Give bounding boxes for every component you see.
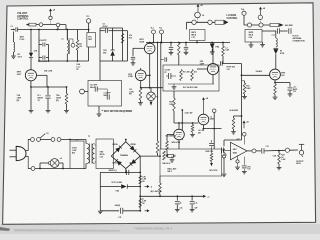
svg-text:6U1: 6U1 <box>281 75 284 77</box>
svg-text:LH SENS: LH SENS <box>227 15 237 17</box>
pot tap contact <box>223 155 226 158</box>
switch contact (osc) 2 <box>208 20 212 24</box>
svg-text:C13: C13 <box>266 146 269 148</box>
wire filter left leg <box>99 172 101 210</box>
svg-text:150: 150 <box>79 46 82 48</box>
tube V6 detector <box>270 69 281 80</box>
capacitor rail bypass <box>161 59 164 61</box>
resistor R5 <box>66 87 68 94</box>
ground (pot) <box>222 173 227 175</box>
+B arrow (rail 2) <box>145 210 148 212</box>
ground (V3 cathode) <box>138 102 143 104</box>
ground arrow (NDR) <box>211 162 213 164</box>
capacitor C17 <box>276 28 278 33</box>
wire AVC branch <box>234 115 242 117</box>
jack contact 2 <box>285 148 289 152</box>
oscillator coil L2 <box>66 30 68 41</box>
diode D4 <box>273 47 278 49</box>
wire osc switch row <box>187 21 216 23</box>
capacitor V2 grid bypass <box>133 47 144 49</box>
wire detector cathode <box>274 80 276 84</box>
ground (R5) <box>64 110 69 112</box>
svg-text:TRA8DA: TRA8DA <box>120 154 128 157</box>
ground (pad 2) <box>260 44 265 46</box>
svg-text:C5B 1.3/1B: C5B 1.3/1B <box>44 71 53 73</box>
wire column top <box>100 27 123 29</box>
svg-text:L3: L3 <box>62 39 64 41</box>
svg-text:1-8: 1-8 <box>202 15 205 17</box>
capacitor C18 <box>288 28 290 33</box>
wire AC neutral run <box>35 168 86 170</box>
svg-text:TL1: TL1 <box>86 16 89 18</box>
IF can box (antenna) <box>245 30 262 43</box>
wire node C4 <box>38 30 40 62</box>
+B arrow tap <box>140 177 143 179</box>
svg-text:R16: R16 <box>129 37 132 39</box>
svg-text:M/DC: M/DC <box>104 95 109 97</box>
ground (C16) <box>288 93 293 95</box>
wire main grid bus <box>18 29 89 31</box>
antenna input terminal <box>11 29 14 31</box>
test point above rail <box>212 109 216 113</box>
resistor R17b <box>156 141 159 153</box>
line resistor module box <box>70 141 84 169</box>
svg-text:NDR 21M: NDR 21M <box>206 151 214 153</box>
resistor R20 <box>232 118 235 129</box>
svg-text:(R): (R) <box>17 100 20 102</box>
wire plate column right <box>122 28 124 61</box>
svg-text:CR4: CR4 <box>116 190 119 193</box>
wire pot wiper <box>225 149 231 151</box>
diode D3 <box>210 42 214 44</box>
ground (C23) <box>175 209 180 211</box>
filter capacitor C23 <box>176 196 178 200</box>
wire switch drop <box>57 27 59 30</box>
switch contact <box>259 23 263 27</box>
capacitor C20 <box>243 157 245 165</box>
svg-text:TL3: TL3 <box>159 27 162 29</box>
ground (C9) <box>169 52 174 54</box>
svg-text:1/4W: 1/4W <box>246 87 250 90</box>
wire detector input <box>242 74 270 76</box>
ground (can) <box>249 44 254 46</box>
wire cathode row <box>31 86 67 88</box>
wire B+ bus <box>140 195 203 197</box>
svg-text:41: 41 <box>180 201 182 204</box>
wire column bottom <box>100 60 123 62</box>
diode CR3B <box>130 146 135 151</box>
wire antenna switch row <box>244 24 270 26</box>
volume pot <box>221 147 223 153</box>
svg-text:R8: R8 <box>142 203 144 205</box>
capacitor C7 bypass <box>47 87 49 95</box>
ballast module box (upper) <box>163 65 219 91</box>
RF coil can <box>87 33 96 48</box>
capacitor C21 <box>209 143 214 145</box>
ground (C14) <box>184 51 189 53</box>
svg-text:6ALA: 6ALA <box>90 86 95 89</box>
wire rectifier output <box>140 155 160 157</box>
svg-text:SM6813 (.): SM6813 (.) <box>109 170 118 172</box>
plate rail B <box>160 43 162 150</box>
resistor inside ballast 1 <box>180 70 183 81</box>
trimmer capacitor C10 <box>94 86 96 91</box>
resistor inside ballast 2 <box>191 70 194 81</box>
switch contact <box>247 23 251 27</box>
diode CR4 <box>100 186 121 188</box>
wire IF secondary <box>223 63 242 65</box>
jack contact <box>252 149 256 153</box>
svg-text:CR3D: CR3D <box>130 163 136 165</box>
wire V5 cathode <box>203 125 205 129</box>
svg-text:1.4W: 1.4W <box>281 158 285 161</box>
bridge rectifier CR3 diamond <box>111 142 140 169</box>
svg-text:1.4s: 1.4s <box>194 201 197 204</box>
ground (C7) <box>46 110 51 112</box>
grid contact under amp <box>237 155 239 159</box>
wire B- rail <box>100 171 140 173</box>
wire to volume pot <box>224 139 242 141</box>
wire pad 2 <box>262 42 264 44</box>
resistor R11 <box>274 84 277 95</box>
svg-text:12A A22: 12A A22 <box>256 70 263 73</box>
+B supply arrow (RF) <box>50 11 52 17</box>
ground (R20) <box>231 131 236 133</box>
oscillator can box <box>190 30 206 41</box>
switch S2 wafer contact <box>49 16 52 19</box>
ground (filter left) <box>98 210 103 212</box>
ground (V2 grid cap) <box>131 62 136 64</box>
wire preamp row <box>204 128 222 130</box>
svg-text:C4F: C4F <box>194 207 197 210</box>
loop coil L4 <box>275 31 277 38</box>
svg-text:-C11: -C11 <box>118 217 122 219</box>
switch contact (output B+) <box>243 132 247 136</box>
wire to transformer primary <box>61 139 86 141</box>
ground (amp grid) <box>235 166 240 168</box>
capacitor C1 <box>15 27 17 31</box>
switch contact <box>56 23 60 27</box>
wire ballast power drop <box>159 176 161 183</box>
wire heater row <box>141 87 163 89</box>
+B supply arrow (ant) <box>260 9 262 15</box>
svg-text:RL3 180 R10 1/4W: RL3 180 R10 1/4W <box>183 86 198 89</box>
svg-text:(CR): (CR) <box>34 51 38 53</box>
interlock contact <box>51 138 55 142</box>
svg-text:TL2: TL2 <box>151 27 154 29</box>
wire cathode bus <box>39 60 89 62</box>
svg-text:** MAY NOT BE REQUIRED: ** MAY NOT BE REQUIRED <box>102 110 133 113</box>
ballast lower box <box>160 149 222 176</box>
rectifier module box <box>96 139 113 169</box>
trimmer module box <box>88 81 122 107</box>
wire C4/C5 join <box>48 45 50 62</box>
output jack symbol <box>299 143 304 145</box>
svg-text:C10: C10 <box>293 91 296 93</box>
ground (trimmer box) <box>98 106 100 114</box>
svg-text:CONNECTION: CONNECTION <box>293 40 306 42</box>
resistor R21 <box>222 43 224 47</box>
svg-text:COIL: COIL <box>20 39 26 41</box>
wire parallel branch <box>127 31 129 61</box>
ground (C20) <box>242 171 247 173</box>
svg-text:6U2B: 6U2B <box>128 76 133 78</box>
svg-text:CD4: CD4 <box>249 36 252 39</box>
wire band-switch row <box>31 24 66 26</box>
resistor V3 cathode <box>140 81 142 88</box>
wire AC hot <box>26 140 31 151</box>
svg-text:64K7: 64K7 <box>233 148 237 151</box>
AC plug <box>10 149 17 151</box>
ground (lower ballast) <box>171 156 173 160</box>
svg-text:R8: R8 <box>142 181 144 183</box>
diode CR3A <box>115 147 120 152</box>
+B supply arrow (osc) <box>197 6 199 12</box>
svg-text:1/4W: 1/4W <box>169 103 173 106</box>
resistor R16 <box>121 34 124 44</box>
resistor R8 <box>178 43 181 56</box>
resistor R26 <box>139 176 142 185</box>
wire AVC <box>275 82 290 84</box>
tube V2 6U8 converter <box>144 43 155 54</box>
switch contact (osc) <box>192 20 196 24</box>
resistor R15 <box>173 91 175 98</box>
ground (antenna coil) <box>11 55 16 57</box>
wire B+ column <box>139 156 141 211</box>
resistor R24 <box>278 151 280 153</box>
diode CR1 <box>30 30 32 54</box>
svg-text:14TL 227K: 14TL 227K <box>209 169 218 172</box>
svg-text:(B) 1.4W R2R: (B) 1.4W R2R <box>151 190 162 193</box>
+C arrow <box>203 195 206 198</box>
plate rail A <box>157 43 159 142</box>
svg-text:16M 218W A24: 16M 218W A24 <box>165 134 176 137</box>
resistor in power drop <box>159 183 162 194</box>
ground (R24) <box>277 167 282 169</box>
resistor R10 <box>242 80 245 82</box>
trimmer capacitor C12 <box>106 94 108 99</box>
ground (R10) <box>242 96 247 98</box>
power switch S1 <box>31 138 35 142</box>
capacitor C11 <box>100 210 119 212</box>
oscillator trimmer <box>195 12 201 18</box>
ground (ballast) <box>173 84 175 87</box>
wire output <box>247 150 252 152</box>
pilot lamp branch <box>39 163 41 169</box>
tube V7 12BF6 <box>207 63 218 74</box>
capacitor C22 on rail <box>126 170 128 175</box>
box resistor inside lower ballast <box>168 154 174 157</box>
wire detector column <box>241 64 243 141</box>
capacitor C4 <box>39 44 42 46</box>
capacitor C9 bypass <box>170 43 172 47</box>
svg-text:AM. BND: AM. BND <box>285 24 293 27</box>
ground (D3) <box>210 51 215 53</box>
switch S3 wafer contact <box>258 15 262 19</box>
wire coupling rail <box>181 110 183 140</box>
svg-text:CR3C: CR3C <box>112 163 118 165</box>
sens control slider box <box>215 20 224 24</box>
resistor R3 cathode <box>30 87 32 110</box>
phono jack J1 <box>66 30 68 40</box>
svg-text:C5A 1.4W: C5A 1.4W <box>185 112 193 115</box>
svg-text:C20: C20 <box>247 169 250 171</box>
ground (R3) <box>29 110 34 112</box>
svg-text:10A LM 92: 10A LM 92 <box>162 162 170 165</box>
svg-text:6AW6: 6AW6 <box>210 118 214 121</box>
diode CR2 <box>112 28 114 50</box>
pilot lamp PL2 <box>150 88 152 92</box>
+B supply arrow (output) <box>243 123 245 129</box>
wire ballast bottom rail <box>168 83 214 85</box>
ground (C24) <box>190 209 195 211</box>
volume control slider box <box>29 23 36 26</box>
wire AC neutral <box>26 157 31 169</box>
svg-text:2N3: 2N3 <box>103 52 106 54</box>
interlock contact <box>57 138 61 142</box>
svg-text:C4 47PF: C4 47PF <box>40 39 48 42</box>
pilot lamp PL1 <box>50 159 59 168</box>
antenna coil L1 <box>13 32 15 43</box>
resistor NDR <box>210 153 213 161</box>
+B arrow (rail 1) <box>145 186 148 188</box>
capacitor inside ballast <box>168 73 170 79</box>
capacitor C13 <box>261 148 263 153</box>
wire diamond top feed <box>125 140 127 142</box>
capacitor C5 <box>39 57 42 59</box>
svg-text:(R): (R) <box>56 100 59 102</box>
audio output amp triangle <box>231 142 248 160</box>
svg-text:R17: R17 <box>129 94 132 96</box>
svg-text:CONTROL: CONTROL <box>227 18 239 20</box>
resistor R27 <box>139 199 142 208</box>
diode CR3C <box>117 161 122 166</box>
wire diamond bottom <box>125 169 127 173</box>
capacitor C16 <box>288 87 293 89</box>
band slider box <box>270 23 279 26</box>
svg-text:ALA 60MD: ALA 60MD <box>230 109 239 112</box>
svg-text:1.4W: 1.4W <box>225 49 229 52</box>
tube V3 IF amp <box>135 70 146 81</box>
diode CR3D <box>131 159 136 164</box>
capacitor C14 bypass <box>185 43 187 47</box>
wire V5 grid row <box>174 122 198 124</box>
capacitor C15 <box>219 61 221 65</box>
resistor R4 <box>77 30 79 41</box>
switch contact <box>37 138 41 142</box>
tube V5 audio preamp <box>198 114 209 125</box>
fuse contact <box>31 167 35 171</box>
resistor R19 <box>192 123 194 125</box>
scan smudge bottom-left <box>0 227 10 231</box>
svg-text:6BK5: 6BK5 <box>233 153 237 155</box>
svg-text:IN.TV. 24 SE3: IN.TV. 24 SE3 <box>112 181 123 184</box>
svg-text:4?58: 4?58 <box>280 52 284 55</box>
switch contact <box>39 23 43 27</box>
svg-text:CR3B: CR3B <box>130 144 136 146</box>
svg-text:C4s: C4s <box>180 207 183 210</box>
svg-text:25-DC: 25-DC <box>103 26 109 28</box>
svg-text:600(R): 600(R) <box>115 205 121 207</box>
ground (R11) <box>273 96 278 98</box>
svg-text:CR3A: CR3A <box>112 143 118 146</box>
svg-text:A13: A13 <box>194 71 197 74</box>
svg-text:R3 1.4W: R3 1.4W <box>183 71 190 74</box>
filter capacitor C24 <box>191 196 193 200</box>
tube V4 audio <box>174 129 185 140</box>
resistor inside lower ballast <box>163 151 166 160</box>
test point TL5 <box>80 89 85 94</box>
svg-text:ANT: ANT <box>20 36 25 39</box>
wire can ground <box>250 42 252 45</box>
wire antenna link <box>262 30 276 32</box>
wire plate column left <box>99 28 101 81</box>
svg-text:JACK: JACK <box>296 162 302 165</box>
svg-text:THERMIDOR MODEL TH-1: THERMIDOR MODEL TH-1 <box>134 227 172 231</box>
wire IF bus <box>146 42 230 44</box>
svg-text:MPS 6CS4: MPS 6CS4 <box>172 141 182 144</box>
wire interlock <box>40 139 51 141</box>
svg-text:CONTROL: CONTROL <box>17 18 29 21</box>
resistor R17 <box>166 135 168 142</box>
tube V1 6BQ7 <box>25 70 36 81</box>
+B supply arrow (V5) <box>203 99 205 114</box>
